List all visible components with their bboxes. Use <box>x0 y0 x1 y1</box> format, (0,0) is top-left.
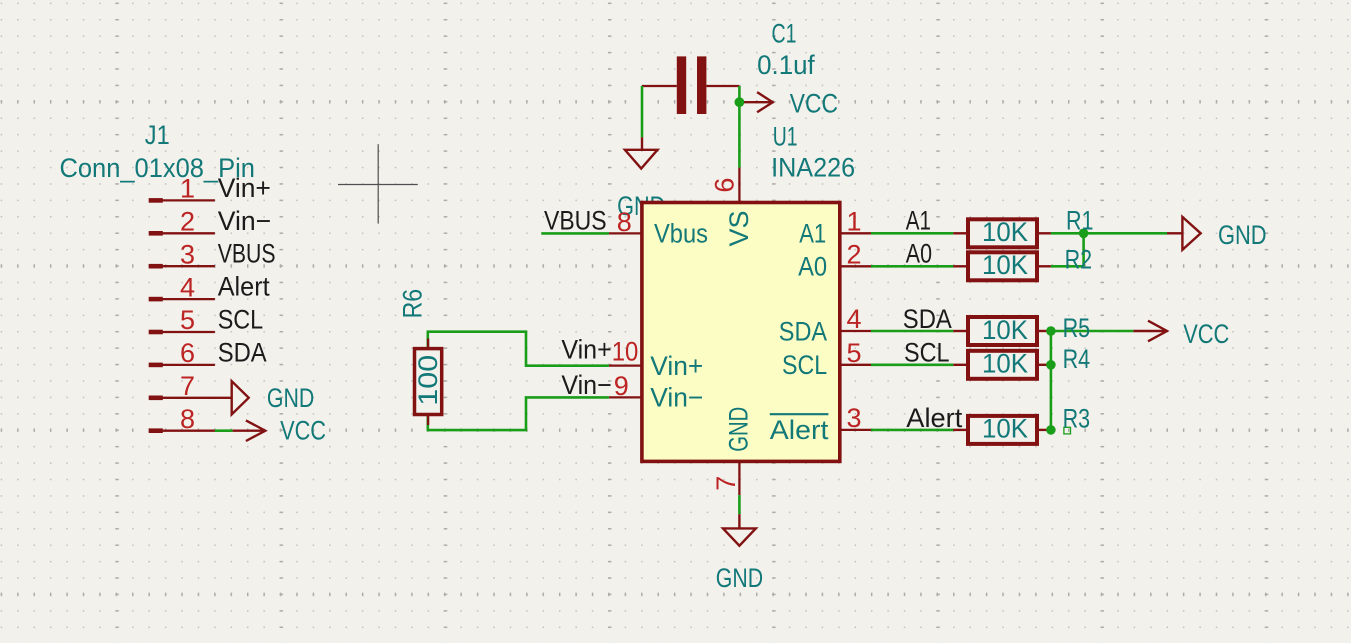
svg-text:U1: U1 <box>773 121 798 151</box>
svg-text:J1: J1 <box>145 120 170 150</box>
svg-text:INA226: INA226 <box>771 152 855 182</box>
svg-text:9: 9 <box>614 371 629 401</box>
svg-text:VBUS: VBUS <box>218 239 276 269</box>
svg-text:SDA: SDA <box>903 304 952 334</box>
svg-text:Alert: Alert <box>770 415 829 445</box>
svg-text:6: 6 <box>180 338 195 368</box>
svg-text:10K: 10K <box>982 349 1028 379</box>
svg-text:Vin−: Vin− <box>561 370 611 400</box>
svg-text:GND: GND <box>1218 220 1267 250</box>
svg-text:5: 5 <box>180 305 195 335</box>
svg-text:R4: R4 <box>1063 344 1091 374</box>
svg-text:Vin−: Vin− <box>218 206 272 236</box>
svg-text:R3: R3 <box>1063 403 1091 433</box>
svg-text:100: 100 <box>413 355 443 406</box>
svg-text:VBUS: VBUS <box>544 206 607 236</box>
svg-text:A1: A1 <box>799 219 826 249</box>
svg-text:VCC: VCC <box>280 415 326 445</box>
svg-text:0.1uf: 0.1uf <box>757 50 815 80</box>
svg-text:R5: R5 <box>1063 313 1091 343</box>
svg-text:Vbus: Vbus <box>654 219 708 249</box>
svg-text:8: 8 <box>617 207 632 237</box>
svg-text:GND: GND <box>716 563 763 593</box>
svg-text:10K: 10K <box>982 217 1028 247</box>
svg-text:A0: A0 <box>906 239 932 269</box>
svg-text:SDA: SDA <box>779 316 827 346</box>
svg-text:GND: GND <box>267 383 314 413</box>
svg-text:VCC: VCC <box>1183 319 1229 349</box>
svg-text:2: 2 <box>180 207 195 237</box>
svg-text:VCC: VCC <box>790 89 838 119</box>
svg-text:GND: GND <box>724 407 754 452</box>
svg-text:8: 8 <box>180 404 195 434</box>
svg-text:10K: 10K <box>982 315 1028 345</box>
svg-text:10K: 10K <box>982 250 1028 280</box>
svg-text:3: 3 <box>180 239 195 269</box>
svg-text:R2: R2 <box>1065 244 1093 274</box>
svg-text:Conn_01x08_Pin: Conn_01x08_Pin <box>60 153 255 183</box>
svg-text:3: 3 <box>846 403 861 433</box>
svg-text:7: 7 <box>711 476 741 491</box>
svg-text:1: 1 <box>846 206 861 236</box>
svg-text:C1: C1 <box>772 19 797 49</box>
svg-text:R6: R6 <box>398 289 428 319</box>
svg-text:SCL: SCL <box>904 338 950 368</box>
svg-text:Vin−: Vin− <box>650 383 703 413</box>
svg-text:SCL: SCL <box>218 305 264 335</box>
svg-text:Alert: Alert <box>218 272 270 302</box>
svg-text:A0: A0 <box>798 252 827 282</box>
svg-text:2: 2 <box>846 239 861 269</box>
svg-text:10K: 10K <box>982 414 1028 444</box>
svg-text:7: 7 <box>180 371 195 401</box>
svg-text:6: 6 <box>710 178 740 193</box>
svg-text:10: 10 <box>612 337 639 367</box>
svg-text:VS: VS <box>724 211 754 247</box>
svg-text:Vin+: Vin+ <box>650 351 703 381</box>
svg-text:Vin+: Vin+ <box>561 335 611 365</box>
svg-text:R1: R1 <box>1066 206 1094 236</box>
svg-text:Alert: Alert <box>906 403 962 433</box>
svg-text:5: 5 <box>846 338 861 368</box>
svg-text:SDA: SDA <box>218 337 267 367</box>
svg-text:4: 4 <box>846 304 861 334</box>
svg-text:A1: A1 <box>906 206 931 236</box>
svg-text:4: 4 <box>180 272 195 302</box>
svg-text:SCL: SCL <box>782 350 827 380</box>
